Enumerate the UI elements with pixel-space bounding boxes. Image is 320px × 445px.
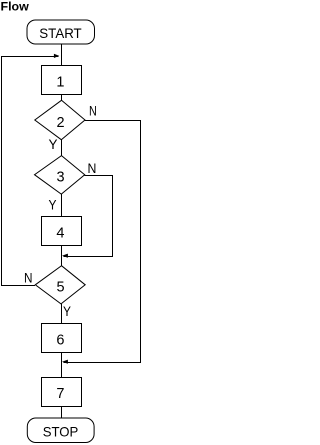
arrowhead right-pointing into spine at y=56	[54, 54, 59, 58]
process box 7	[42, 378, 82, 407]
svg-text:STOP: STOP	[43, 423, 79, 439]
svg-text:4: 4	[56, 226, 64, 242]
svg-text:6: 6	[56, 333, 64, 349]
svg-text:3: 3	[56, 170, 64, 186]
arrowhead left-pointing into spine at y=256	[62, 254, 68, 258]
svg-text:N: N	[89, 103, 97, 119]
svg-text:7: 7	[56, 386, 64, 402]
decision diamond 5	[35, 266, 85, 304]
wire: main vertical spine segments	[61, 44, 63, 418]
wire: diamond 3 N loop around box 4	[64, 176, 113, 257]
arrowhead left-pointing into spine at y=362	[62, 360, 68, 364]
process box 6	[42, 324, 82, 353]
wire: left feedback rail (diamond 5 N west, up, into spine above box 1)	[2, 57, 59, 286]
wire: right rail from diamond 2 N down to between box 6 and box 7	[64, 121, 141, 363]
svg-text:Flow: Flow	[1, 0, 30, 14]
svg-text:N: N	[88, 160, 97, 176]
decision diamond 2	[35, 100, 85, 139]
svg-text:N: N	[24, 270, 33, 286]
decision diamond 3	[35, 156, 85, 195]
svg-text:START: START	[39, 25, 82, 41]
svg-text:Y: Y	[49, 136, 59, 152]
process box 4	[42, 217, 82, 246]
svg-text:2: 2	[56, 115, 64, 131]
terminator STOP	[27, 418, 94, 443]
svg-text:Y: Y	[49, 197, 58, 213]
process box 1	[42, 66, 82, 95]
svg-text:5: 5	[56, 280, 64, 296]
svg-text:1: 1	[56, 75, 64, 91]
terminator START	[27, 20, 95, 44]
svg-text:Y: Y	[63, 303, 72, 319]
